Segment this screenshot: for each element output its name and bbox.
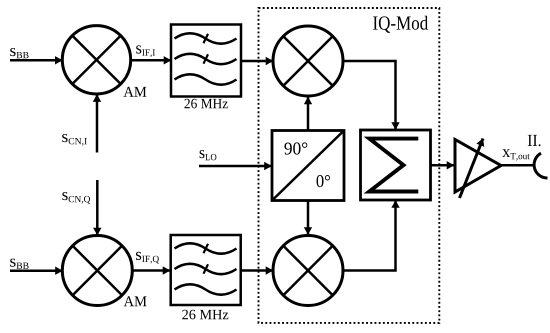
filter F1 (bandpass, I path) [171, 25, 241, 97]
label AM (top mixer) [124, 87, 147, 97]
label sIF,Q [136, 252, 159, 264]
label sBB (top) [10, 48, 28, 58]
wire mixer U2 to summer S1 [343, 61, 396, 130]
label sLO [200, 150, 217, 160]
phase shifter U3 (90/0 degree splitter) [272, 131, 344, 201]
wire mixer U5 to filter F2 [132, 269, 170, 272]
wire amplifier A1 output to connector [501, 164, 534, 167]
wire sBB to mixer U5 [10, 269, 63, 272]
value label 26 MHz (bottom filter) [182, 310, 228, 320]
wire phase shifter 90deg output to mixer U2 [307, 97, 310, 131]
summer S1 (sigma adder) [361, 130, 431, 200]
label AM (bottom mixer) [124, 296, 147, 306]
mixer U1 (AM modulator, I path) [62, 26, 130, 94]
wire sCN,I into mixer U1 [96, 95, 99, 153]
filter F2 (bandpass, Q path) [171, 235, 241, 305]
label sCN,I [62, 134, 87, 146]
label xT,out [502, 149, 529, 160]
wire phase shifter 0deg output to mixer U4 [307, 201, 310, 235]
connector arc (to part II) [534, 153, 547, 178]
wire mixer U4 to summer S1 [343, 201, 396, 271]
value label 26 MHz (top filter) [185, 99, 228, 109]
wire sCN,Q into mixer U5 [96, 180, 99, 235]
wire filter F1 to mixer U2 [241, 60, 273, 63]
wire sLO to phase shifter U3 [199, 165, 272, 168]
wire summer S1 to amplifier A1 [431, 164, 454, 167]
label sBB (bottom) [10, 259, 28, 269]
label IQ-Mod [373, 16, 428, 33]
mixer U2 (upconverter, I path) [273, 26, 343, 96]
mixer U4 (upconverter, Q path) [273, 236, 343, 306]
amplifier A1 (variable gain) [455, 139, 501, 199]
label sCN,Q [62, 192, 90, 204]
mixer U5 (AM modulator, Q path) [62, 236, 132, 306]
wire mixer U1 to filter F1 [131, 59, 171, 62]
dashed box IQ-Mod [259, 8, 440, 323]
wire filter F2 to mixer U4 [241, 269, 273, 272]
wire sBB to mixer U1 [10, 59, 62, 62]
label sIF,I [136, 45, 155, 57]
label II. (continuation to part II) [528, 135, 541, 146]
